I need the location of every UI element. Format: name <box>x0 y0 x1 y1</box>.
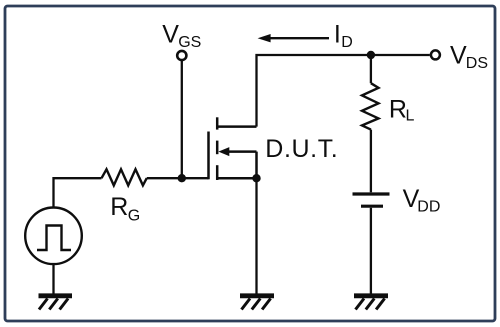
ground (source) <box>240 296 274 310</box>
svg-text:R: R <box>389 95 407 123</box>
svg-text:V: V <box>450 41 467 69</box>
pulse generator V1 <box>25 208 82 265</box>
wire pulse generator to ground <box>52 265 54 294</box>
svg-text:L: L <box>406 107 415 124</box>
wire drain to top rail <box>257 55 430 127</box>
resistor RG <box>102 169 147 185</box>
svg-text:V: V <box>162 21 179 49</box>
wire pulse generator to resistor RG <box>54 178 102 206</box>
wire RG to gate <box>147 177 209 179</box>
svg-text:D: D <box>341 34 353 51</box>
current arrow ID <box>268 37 329 39</box>
terminal VGS (open circle) <box>177 51 186 60</box>
node gate (junction dot) <box>178 174 186 182</box>
battery VDD <box>353 194 390 206</box>
node drain rail (junction dot) <box>367 51 375 59</box>
svg-text:D.U.T.: D.U.T. <box>265 135 338 163</box>
ground (VDD) <box>354 296 388 310</box>
svg-text:DD: DD <box>417 199 440 216</box>
node source (junction dot) <box>252 174 260 182</box>
transistor Q1 (D.U.T. MOSFET) <box>209 117 257 180</box>
resistor RL <box>362 55 379 192</box>
wire battery to ground <box>370 208 372 294</box>
svg-text:G: G <box>128 207 140 224</box>
terminal VDS (open circle) <box>431 50 440 59</box>
svg-text:I: I <box>334 20 341 48</box>
ground (pulse generator) <box>39 296 73 310</box>
wire VGS terminal to gate node <box>181 61 183 178</box>
svg-text:DS: DS <box>466 55 488 72</box>
svg-text:GS: GS <box>178 34 201 51</box>
wire source to ground <box>255 178 257 294</box>
svg-text:R: R <box>110 193 128 221</box>
